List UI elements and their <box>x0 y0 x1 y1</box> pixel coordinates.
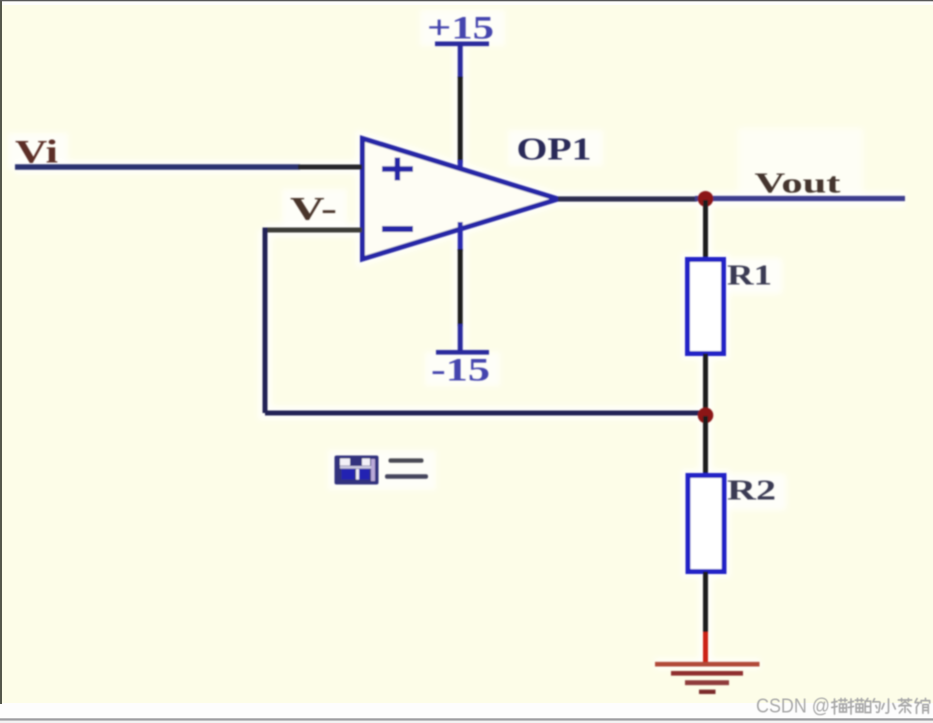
wire R1 to junction 2 <box>703 354 708 416</box>
resistor R1 <box>688 260 724 354</box>
svg-text:R2: R2 <box>727 475 776 507</box>
wire V- power stub blue <box>458 324 463 351</box>
node junction 1 (output/R1) <box>698 191 714 207</box>
pin stub V+ blue <box>458 160 463 181</box>
svg-text:OP1: OP1 <box>517 131 592 167</box>
pin stub V- power blue <box>458 222 463 251</box>
svg-text:Vout: Vout <box>755 168 841 200</box>
wire R2 to ground red <box>703 632 708 663</box>
svg-text:-15: -15 <box>431 353 490 389</box>
bottom white band <box>0 703 933 723</box>
wire Vi input <box>15 164 300 169</box>
ground line 3 <box>685 680 729 685</box>
resistor R2 <box>688 476 724 572</box>
caption glyph "er" (two) strokes <box>385 458 428 478</box>
glyph mao 1 <box>832 699 847 715</box>
bottom gray rule <box>0 718 933 720</box>
left dark border <box>0 0 2 704</box>
wire output black segment <box>558 196 697 201</box>
wire R2 to ground black <box>703 572 708 635</box>
wire V+ black segment <box>458 77 463 164</box>
top dark border <box>0 0 933 1</box>
wire inverting input horizontal <box>265 228 362 233</box>
watermark CJK glyph strokes <box>832 698 930 714</box>
svg-text:CSDN @: CSDN @ <box>756 696 830 718</box>
caption glyph "tu" (figure) box <box>335 456 379 485</box>
op-amp OP1 triangle <box>363 139 559 260</box>
minus symbol (inverting input) <box>382 226 413 232</box>
wire output blue segment <box>695 196 905 201</box>
plus symbol (non-inverting input) <box>382 158 413 181</box>
power rail bar +15 <box>435 42 489 47</box>
node junction 2 (feedback) <box>698 408 714 424</box>
svg-text:R1: R1 <box>727 260 772 292</box>
glyph guan <box>915 698 930 713</box>
glyph cha <box>898 699 911 714</box>
glyph mao 2 <box>848 699 863 715</box>
svg-text:V-: V- <box>290 192 337 228</box>
wire output to R1 <box>703 200 708 260</box>
wire V- power black segment <box>458 249 463 326</box>
power rail bar -15 <box>436 350 489 355</box>
glyph xiao <box>882 699 895 713</box>
wire feedback bottom horizontal <box>265 411 703 416</box>
ground line 2 <box>671 671 743 676</box>
svg-text:+15: +15 <box>427 11 494 47</box>
glyph de <box>865 699 880 713</box>
wire junction 2 to R2 <box>703 416 708 476</box>
wire V+ stub blue <box>458 46 463 78</box>
top white strip under top border <box>0 1 933 5</box>
ground line 4 <box>699 690 716 694</box>
ground line 1 <box>655 662 760 667</box>
wire Vi input dark segment <box>298 165 362 170</box>
wire feedback vertical <box>263 228 268 414</box>
